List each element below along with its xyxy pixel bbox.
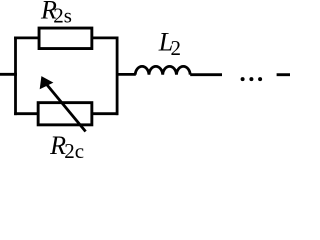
- wire right dash: [277, 73, 291, 76]
- arrow shaft of variable resistor R2c: [47, 85, 86, 132]
- wire after inductor: [190, 73, 222, 76]
- resistor R2s body: [39, 28, 92, 49]
- wire left vertical: [14, 37, 17, 116]
- svg-text:2s: 2s: [53, 4, 72, 28]
- wire top branch: [14, 37, 118, 40]
- svg-text:2c: 2c: [64, 139, 84, 158]
- ellipsis dot 1: [241, 77, 245, 81]
- ellipsis dot 3: [258, 77, 262, 81]
- wire left stub: [0, 73, 17, 76]
- inductor L2 coils: [135, 66, 190, 74]
- arrow head of variable resistor R2c: [40, 77, 52, 89]
- wire to inductor: [117, 73, 136, 76]
- resistor R2c body: [38, 103, 92, 125]
- ellipsis dot 2: [249, 77, 253, 81]
- wire right vertical: [116, 37, 119, 116]
- svg-text:2: 2: [171, 36, 182, 60]
- wire bottom branch: [14, 112, 118, 115]
